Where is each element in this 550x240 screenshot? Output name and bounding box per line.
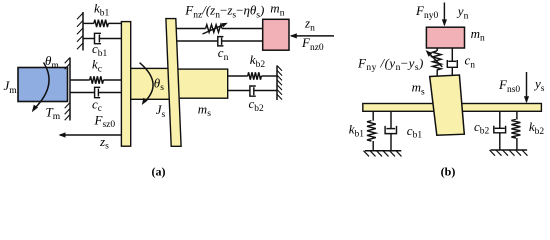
nonlinear mesh spring with label F_nz/(z_n-z_s-eta*theta_s) [176, 3, 264, 35]
damper c_n (part b) [447, 48, 475, 76]
wall (right fixed support, part a) [277, 66, 282, 101]
damper c_c [70, 87, 122, 114]
svg-text:ms: ms [412, 80, 425, 98]
wall (top-left fixed support) [77, 12, 83, 51]
svg-text:Fny0: Fny0 [415, 3, 438, 21]
svg-text:kb1: kb1 [94, 1, 110, 19]
svg-text:Tm: Tm [46, 104, 61, 122]
rotation arc theta_s [140, 63, 165, 105]
damper c_b1 [83, 33, 122, 59]
beam (horizontal bar, part b) [363, 104, 542, 112]
mass J_m (rotor, blue) [4, 68, 68, 102]
mass m_n (pink, part b) [426, 26, 485, 48]
svg-text:mn: mn [471, 26, 485, 44]
damper c_n (part a) [177, 37, 263, 63]
spring k_b2 (part a) [228, 52, 277, 80]
svg-text:cb2: cb2 [249, 96, 265, 114]
svg-text:Fns0: Fns0 [498, 77, 520, 95]
mass m_s (tilted yellow block, part b) [412, 75, 465, 135]
mass m_n (pink, part a) [263, 1, 289, 51]
svg-text:kb2: kb2 [529, 119, 545, 137]
damper c_b2 (part b) [474, 111, 506, 150]
nonlinear mesh spring with label F_ny/(y_n-y_s) [357, 48, 442, 76]
shaft bearing bar 1 [121, 22, 130, 147]
svg-text:yn: yn [456, 4, 469, 22]
svg-text:zs: zs [99, 134, 109, 152]
svg-text:Js: Js [156, 102, 166, 120]
mass m_s (yellow, part a) [177, 69, 228, 119]
svg-text:kc: kc [92, 57, 102, 75]
svg-text:(b): (b) [441, 165, 456, 179]
svg-text:zn: zn [304, 16, 315, 34]
svg-text:cn: cn [218, 45, 229, 63]
svg-text:cb2: cb2 [474, 119, 490, 137]
svg-text:Fny /(yn−ys): Fny /(yn−ys) [357, 55, 424, 73]
spring k_b1 [83, 1, 122, 27]
mass J_s (yellow) [126, 68, 171, 119]
svg-text:cb1: cb1 [407, 123, 423, 141]
svg-text:kb1: kb1 [349, 122, 365, 140]
torque arc with labels theta_m and T_m [32, 53, 61, 122]
svg-text:Jm: Jm [4, 78, 18, 96]
svg-text:kb2: kb2 [250, 52, 266, 70]
svg-text:Fnz0: Fnz0 [301, 35, 324, 53]
spring k_b1 (part b) [349, 111, 376, 150]
force arrow F_ns0 with labels F_ns0 and y_s [498, 72, 545, 103]
spring k_c [70, 57, 122, 84]
damper c_b2 (part a) [228, 86, 277, 114]
svg-text:(a): (a) [152, 165, 166, 179]
spring k_b2 (part b) [511, 111, 544, 150]
svg-text:cn: cn [465, 53, 476, 71]
ground (left, part b) [364, 151, 402, 157]
damper c_b1 (part b) [385, 111, 422, 150]
svg-text:ms: ms [198, 101, 211, 119]
motor mount hatching [65, 58, 70, 121]
arrow z_n with labels z_n and F_nz0 [290, 16, 334, 53]
svg-text:ys: ys [533, 76, 545, 94]
force arrow F_ny0 with labels F_ny0 and y_n [415, 3, 469, 27]
force arrow F_sz0 with labels F_sz0 and z_s [59, 112, 123, 151]
svg-text:Fsz0: Fsz0 [94, 112, 116, 130]
ground (right, part b) [490, 150, 528, 156]
svg-text:Fnz/(zn−zs−ηθs): Fnz/(zn−zs−ηθs) [184, 3, 264, 21]
svg-text:mn: mn [270, 1, 284, 19]
shaft bearing bar 2 (tilted) [166, 19, 181, 147]
